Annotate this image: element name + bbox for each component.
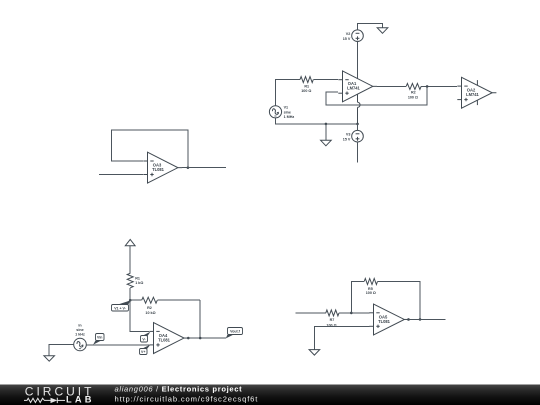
op-amp OA3 TL081 [143,152,182,183]
wire OA1 V- pin with hop [358,94,361,124]
resistor R2 100 Ohm [406,83,421,99]
wire OA4 output [188,337,226,339]
svg-text:1 MHz: 1 MHz [284,115,295,119]
node label V- [141,332,151,342]
svg-text:100 Ω: 100 Ω [366,291,376,295]
svg-text:R2: R2 [147,306,152,310]
wire node to OA4 inverting input [130,300,149,331]
resistor R1 100 Ohm [300,77,313,94]
wire V2 top to ground [358,23,383,30]
logo LAB [66,395,95,405]
junction feedback output [419,318,422,321]
wire R1 to OA1 inverting input [313,79,338,81]
feedback wire to output [377,282,420,320]
resistor R7 100 Ohm [326,310,339,328]
wire supply to R1 [129,246,131,274]
svg-text:LM741: LM741 [347,86,360,91]
ground bottom left [44,356,55,362]
ground below rail [321,124,332,146]
wire R2 to OA2 inverting input [421,85,457,87]
svg-text:100 Ω: 100 Ω [408,96,418,100]
wire V1 bottom rail [276,118,358,124]
voltage source V1 sine [269,106,294,119]
wire source to OA4 + input [86,344,149,346]
wire R7 to OA5 inverting input [339,312,369,314]
wire V1 to R1 [276,80,301,106]
op-amp OA1 LM741 [338,71,377,102]
node label V1 + V- [112,300,131,311]
feedback wire OA3 [112,130,188,167]
ground bottom right [309,350,320,356]
svg-text:sine: sine [284,110,291,114]
resistor R5 100 Ohm [364,279,377,296]
svg-text:100 Ω: 100 Ω [301,89,311,93]
junction R2 output node [426,85,429,88]
node label Vout.f [226,328,243,339]
junction ground tee [325,123,328,126]
wire below V3 dangling [357,142,359,162]
logo CIRCUIT [25,384,95,398]
feedback wire up [351,282,364,313]
svg-text:V1 + V-: V1 + V- [114,306,126,310]
svg-text:100 Ω: 100 Ω [326,324,336,328]
junction V3 top [356,123,359,126]
junction OA5 output pin [407,318,410,321]
svg-text:aliang006 / Electronics projec: aliang006 / Electronics project [115,385,243,394]
voltage source V2 [343,30,364,42]
svg-text:R1: R1 [304,85,309,89]
svg-text:1 kΩ: 1 kΩ [135,281,143,285]
wire OA3 + input dangling [99,174,143,176]
svg-text:TL081: TL081 [152,167,165,172]
svg-text:R1: R1 [135,277,140,281]
wire OA1 output to R2 [377,85,406,87]
node label Vin [93,334,104,345]
svg-text:LM741: LM741 [466,92,479,97]
wire input left [295,312,326,314]
voltage source sine 1 kHz [74,323,87,351]
svg-text:V2: V2 [346,32,351,36]
svg-text:sine: sine [76,328,83,332]
svg-text:Vin: Vin [97,336,102,340]
junction OA4 output pin [187,337,190,340]
op-amp OA4 TL081 [149,323,188,354]
op-amp OA2 LM741 [457,77,496,108]
node label V+ [140,345,151,355]
svg-text:V1: V1 [284,106,289,110]
voltage source V3 [343,124,363,142]
svg-text:1 kHz: 1 kHz [75,333,85,337]
svg-text:http://circuitlab.com/c9fsc2ec: http://circuitlab.com/c9fsc2ecsqf6t [115,394,259,403]
wire R1 to node [129,288,131,300]
wire OA3 output [182,167,226,169]
resistor R1 1 kOhm [127,273,143,288]
svg-text:Vout.f: Vout.f [230,330,240,334]
op-amp OA5 TL081 [369,304,408,335]
svg-text:LAB: LAB [66,395,95,405]
footer url [115,394,259,403]
wire V2 to OA1 V+ pin [357,42,359,79]
ground top right [377,28,388,34]
wire OA5 + input to ground [314,326,369,349]
supply arrow [125,239,135,245]
resistor R2 10 kOhm [130,297,200,315]
wire R2 to output node [199,300,201,338]
svg-text:15 V: 15 V [343,138,351,142]
svg-text:V3: V3 [346,133,351,137]
footer title [115,385,243,394]
wire OA5 output [409,318,446,320]
svg-text:R2: R2 [411,90,416,94]
feedback wire to OA1 + input [326,86,427,104]
svg-text:10 kΩ: 10 kΩ [145,311,155,315]
svg-text:TL081: TL081 [378,319,391,324]
wire source to ground [49,345,73,356]
footer bar [0,385,540,405]
svg-text:R7: R7 [330,318,335,322]
junction input node [350,312,353,315]
svg-text:15 V: 15 V [343,37,351,41]
svg-text:V+: V+ [141,350,145,354]
junction feedback join [199,337,202,340]
svg-text:TL081: TL081 [158,337,171,342]
junction OA3 output [187,166,190,169]
junction node [129,299,132,302]
logo doodle resistor-diode [24,398,65,403]
